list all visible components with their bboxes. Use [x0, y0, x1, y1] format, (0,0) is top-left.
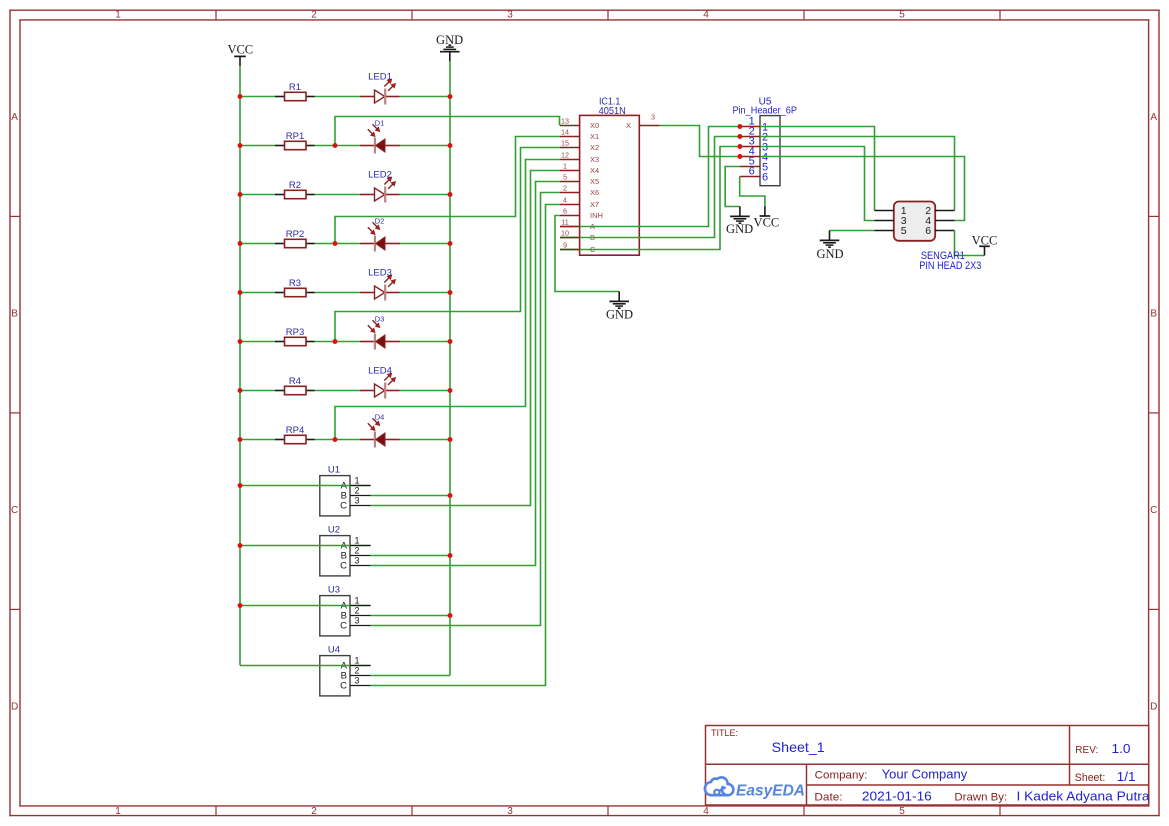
- svg-text:4: 4: [703, 9, 709, 20]
- junction U5 pin1: [737, 124, 742, 129]
- wire row R1 left segment: [240, 96, 275, 98]
- junction U5 pin2: [737, 134, 742, 139]
- svg-text:Drawn By:: Drawn By:: [954, 792, 1007, 804]
- svg-text:2: 2: [355, 546, 360, 556]
- wire U2 pin2 to GND bus: [371, 555, 450, 557]
- svg-text:3: 3: [355, 556, 360, 566]
- svg-text:I Kadek Adyana Putra: I Kadek Adyana Putra: [1017, 790, 1150, 804]
- title block frame: [706, 726, 1149, 806]
- wire U5 pin5 to GND: [725, 167, 740, 207]
- wire U3 pin1 from VCC bus: [240, 605, 371, 607]
- svg-text:Date:: Date:: [814, 792, 842, 804]
- svg-text:2: 2: [563, 184, 567, 193]
- wire R1-LED1: [315, 96, 361, 98]
- svg-text:LED3: LED3: [368, 268, 392, 279]
- junction right bus row 5: [448, 290, 453, 295]
- ground GND (below IC): [606, 292, 633, 322]
- svg-text:B: B: [1150, 309, 1157, 320]
- svg-text:U4: U4: [328, 644, 340, 655]
- svg-text:2: 2: [355, 666, 360, 676]
- svg-text:RP1: RP1: [286, 131, 304, 142]
- resistor R4: [275, 376, 315, 395]
- svg-text:R1: R1: [289, 82, 301, 93]
- wire SENGAR pin5 to GND: [830, 230, 875, 232]
- op-amp IC1.1 4051N multiplexer: [560, 96, 660, 256]
- svg-text:X2: X2: [590, 143, 599, 152]
- wire IC C to U5 pin3 to SENGAR pin3: [560, 147, 875, 250]
- wire D4 right segment: [400, 439, 451, 441]
- wire IC A to U5 pin1 to SENGAR pin1: [560, 127, 875, 227]
- svg-text:1: 1: [355, 536, 360, 546]
- resistor R1: [275, 82, 315, 101]
- connector U1: [320, 464, 360, 516]
- svg-text:6: 6: [925, 225, 931, 237]
- svg-text:VCC: VCC: [972, 234, 998, 248]
- connector U3: [320, 584, 360, 636]
- U5 pin2 lead: [740, 136, 760, 138]
- svg-text:LED2: LED2: [368, 170, 392, 181]
- wire row R4 left segment: [240, 390, 275, 392]
- svg-text:Company:: Company:: [815, 769, 868, 781]
- svg-text:5: 5: [563, 173, 567, 182]
- svg-text:1: 1: [115, 9, 121, 20]
- photodiode D4: [360, 413, 400, 448]
- wire U4 pin1 from VCC bus: [240, 665, 371, 667]
- svg-text:2: 2: [311, 806, 317, 817]
- wire RP2-D2: [315, 243, 361, 245]
- junction left bus row 7: [238, 388, 243, 393]
- photodiode D2: [360, 217, 400, 252]
- wire VCC bus (left vertical): [239, 66, 241, 665]
- wire D4 to IC: [335, 160, 560, 440]
- junction left bus row 6: [238, 339, 243, 344]
- svg-text:14: 14: [561, 128, 569, 137]
- svg-text:4: 4: [563, 196, 567, 205]
- svg-text:1: 1: [355, 596, 360, 606]
- svg-text:2: 2: [355, 486, 360, 496]
- junction right bus row 1: [448, 94, 453, 99]
- svg-text:RP4: RP4: [286, 425, 304, 436]
- svg-text:C: C: [11, 505, 18, 516]
- U5 pin3 lead: [740, 146, 760, 148]
- wire GND bus (right vertical): [449, 61, 451, 676]
- wire D3 to IC: [335, 148, 560, 342]
- svg-text:X3: X3: [590, 155, 599, 164]
- resistor R2: [275, 180, 315, 199]
- LED LED1: [360, 72, 400, 105]
- wire SENGAR pin6 to VCC: [955, 231, 985, 256]
- svg-text:5: 5: [899, 806, 905, 817]
- resistor RP2: [275, 229, 315, 248]
- svg-text:11: 11: [561, 218, 568, 227]
- junction left bus row 3: [238, 192, 243, 197]
- junction left bus row 4: [238, 241, 243, 246]
- wire RP4-D4: [315, 439, 361, 441]
- svg-text:GND: GND: [726, 222, 753, 236]
- svg-text:Sheet:: Sheet:: [1075, 772, 1106, 784]
- junction D4 node: [333, 437, 338, 442]
- svg-text:C: C: [340, 621, 347, 632]
- junction GND bus U3B: [448, 613, 453, 618]
- svg-text:2021-01-16: 2021-01-16: [862, 790, 932, 804]
- wire row RP1 left segment: [240, 145, 275, 147]
- junction left bus row 2: [238, 143, 243, 148]
- svg-text:REV:: REV:: [1075, 744, 1098, 756]
- wire R3-LED3: [315, 292, 361, 294]
- svg-text:X1: X1: [590, 132, 599, 141]
- junction U5 pin4: [737, 154, 742, 159]
- wire U1 pin3 to IC X4: [371, 171, 560, 506]
- wire LED1 right segment: [400, 96, 451, 98]
- junction left bus row 1: [238, 94, 243, 99]
- svg-text:13: 13: [561, 117, 569, 126]
- wire U3 pin2 to GND bus: [371, 615, 450, 617]
- wire row RP3 left segment: [240, 341, 275, 343]
- junction U5 pin3: [737, 144, 742, 149]
- wire RP3-D3: [315, 341, 361, 343]
- svg-text:INH: INH: [590, 211, 603, 220]
- svg-text:VCC: VCC: [754, 216, 780, 230]
- wire U1 pin2 to GND bus: [371, 495, 450, 497]
- svg-text:D3: D3: [375, 315, 385, 324]
- resistor R3: [275, 278, 315, 297]
- svg-text:A: A: [11, 112, 18, 123]
- svg-text:R3: R3: [289, 278, 301, 289]
- svg-text:R2: R2: [289, 180, 301, 191]
- svg-text:D: D: [1150, 702, 1157, 713]
- ground GND (below U5): [726, 207, 753, 237]
- svg-text:1/1: 1/1: [1117, 769, 1136, 784]
- svg-text:5: 5: [899, 9, 905, 20]
- ground GND (left of SENGAR1): [816, 231, 843, 262]
- svg-text:U2: U2: [328, 524, 340, 535]
- svg-text:LED1: LED1: [368, 72, 392, 83]
- svg-text:12: 12: [561, 151, 569, 160]
- pin leads U4: [350, 666, 371, 686]
- U5 pin4 lead: [740, 156, 760, 158]
- svg-text:4: 4: [703, 806, 709, 817]
- LED LED2: [360, 170, 400, 203]
- svg-text:Sheet_1: Sheet_1: [772, 739, 825, 755]
- junction VCC bus U3A: [238, 603, 243, 608]
- power flag VCC (top): [227, 43, 253, 67]
- svg-text:1: 1: [355, 656, 360, 666]
- svg-text:X7: X7: [590, 200, 599, 209]
- svg-text:9: 9: [563, 241, 567, 250]
- svg-text:EasyEDA: EasyEDA: [736, 783, 805, 800]
- connector U5 Pin_Header 6P: [732, 96, 797, 185]
- svg-text:R4: R4: [289, 376, 301, 387]
- junction right bus row 3: [448, 192, 453, 197]
- junction GND bus U1B: [448, 493, 453, 498]
- wire IC X out to U5 pin4 to SENGAR pin4: [660, 126, 965, 221]
- resistor RP4: [275, 425, 315, 444]
- resistor RP3: [275, 327, 315, 346]
- wire U4 pin2 to GND bus: [371, 675, 450, 677]
- wire LED4 right segment: [400, 390, 451, 392]
- svg-text:RP2: RP2: [286, 229, 304, 240]
- svg-text:15: 15: [561, 139, 569, 148]
- svg-text:PIN HEAD 2X3: PIN HEAD 2X3: [919, 260, 981, 272]
- junction VCC bus U1A: [238, 483, 243, 488]
- svg-text:1: 1: [355, 476, 360, 486]
- svg-text:VCC: VCC: [227, 43, 253, 57]
- svg-text:X0: X0: [590, 121, 599, 130]
- svg-text:X5: X5: [590, 177, 599, 186]
- ground GND (top): [436, 33, 463, 61]
- svg-text:X6: X6: [590, 188, 599, 197]
- photodiode D1: [360, 119, 400, 154]
- power flag VCC (right of SENGAR1): [972, 234, 998, 256]
- pin leads U2: [350, 546, 371, 566]
- junction GND bus U2B: [448, 553, 453, 558]
- wire row RP4 left segment: [240, 439, 275, 441]
- svg-text:C: C: [1150, 505, 1157, 516]
- wire U4 pin3 to IC X7: [371, 205, 560, 686]
- svg-text:GND: GND: [816, 247, 843, 261]
- wire U5 pin6 to VCC: [740, 177, 765, 207]
- wire U2 pin1 from VCC bus: [240, 545, 371, 547]
- svg-text:GND: GND: [436, 33, 463, 47]
- svg-text:3: 3: [355, 616, 360, 626]
- wire D1 right segment: [400, 145, 451, 147]
- svg-text:3: 3: [507, 806, 513, 817]
- svg-text:6: 6: [762, 171, 768, 183]
- U5 pin1 lead: [740, 126, 760, 128]
- wire row R2 left segment: [240, 194, 275, 196]
- IC pin leads A B C over wires: [560, 227, 580, 250]
- svg-text:A: A: [1150, 112, 1157, 123]
- svg-text:B: B: [11, 309, 18, 320]
- svg-text:GND: GND: [606, 307, 633, 321]
- wire IC B to U5 pin2 to SENGAR pin2: [560, 137, 955, 238]
- connector U4: [320, 644, 360, 696]
- svg-text:5: 5: [901, 225, 907, 237]
- wire D2 to IC: [335, 137, 560, 244]
- svg-text:2: 2: [355, 606, 360, 616]
- svg-text:3: 3: [355, 496, 360, 506]
- svg-text:10: 10: [561, 229, 569, 238]
- svg-text:C: C: [340, 501, 347, 512]
- svg-text:U1: U1: [328, 464, 340, 475]
- wire D1 to IC: [335, 117, 560, 146]
- connector U2: [320, 524, 360, 576]
- wire row RP2 left segment: [240, 243, 275, 245]
- svg-text:U3: U3: [328, 584, 340, 595]
- svg-text:TITLE:: TITLE:: [711, 728, 738, 738]
- svg-text:D: D: [11, 702, 18, 713]
- junction D1 node: [333, 143, 338, 148]
- wire U2 pin3 to IC X5: [371, 182, 560, 566]
- wire R4-LED4: [315, 390, 361, 392]
- pin leads U1: [350, 486, 371, 506]
- svg-text:2: 2: [311, 9, 317, 20]
- junction D3 node: [333, 339, 338, 344]
- resistor RP1: [275, 131, 315, 150]
- junction right bus row 2: [448, 143, 453, 148]
- junction right bus row 4: [448, 241, 453, 246]
- svg-text:X4: X4: [590, 166, 599, 175]
- svg-text:3: 3: [355, 676, 360, 686]
- junction left bus row 5: [238, 290, 243, 295]
- junction D2 node: [333, 241, 338, 246]
- EasyEDA logo: [705, 777, 805, 799]
- power flag VCC (below U5): [754, 206, 780, 229]
- svg-text:LED4: LED4: [368, 366, 392, 377]
- svg-text:C: C: [340, 681, 347, 692]
- junction VCC bus U2A: [238, 543, 243, 548]
- svg-text:3: 3: [651, 113, 655, 122]
- LED LED4: [360, 366, 400, 399]
- svg-text:4051N: 4051N: [599, 105, 626, 117]
- svg-text:X: X: [626, 121, 631, 130]
- pin leads U3: [350, 606, 371, 626]
- junction right bus row 6: [448, 339, 453, 344]
- junction right bus row 8: [448, 437, 453, 442]
- wire LED2 right segment: [400, 194, 451, 196]
- svg-text:1: 1: [563, 162, 567, 171]
- wire D3 right segment: [400, 341, 451, 343]
- wire row R3 left segment: [240, 292, 275, 294]
- svg-text:1: 1: [115, 806, 121, 817]
- svg-text:Pin_Header_6P: Pin_Header_6P: [732, 105, 797, 116]
- wire U3 pin3 to IC X6: [371, 193, 560, 626]
- connector SENGAR1 PIN HEAD 2X3: [875, 202, 955, 241]
- svg-text:D1: D1: [375, 119, 385, 128]
- wire R2-LED2: [315, 194, 361, 196]
- svg-text:C: C: [340, 561, 347, 572]
- svg-text:6: 6: [563, 207, 567, 216]
- wire U1 pin1 from VCC bus: [240, 485, 371, 487]
- svg-text:1.0: 1.0: [1112, 741, 1131, 756]
- svg-text:Your Company: Your Company: [882, 766, 968, 781]
- junction left bus row 8: [238, 437, 243, 442]
- wire D2 right segment: [400, 243, 451, 245]
- wire RP1-D1: [315, 145, 361, 147]
- junction right bus row 7: [448, 388, 453, 393]
- svg-text:D4: D4: [375, 413, 385, 422]
- svg-text:3: 3: [507, 9, 513, 20]
- photodiode D3: [360, 315, 400, 350]
- LED LED3: [360, 268, 400, 301]
- wire LED3 right segment: [400, 292, 451, 294]
- svg-text:D2: D2: [375, 217, 385, 226]
- wire INH to GND: [555, 216, 619, 292]
- svg-text:RP3: RP3: [286, 327, 304, 338]
